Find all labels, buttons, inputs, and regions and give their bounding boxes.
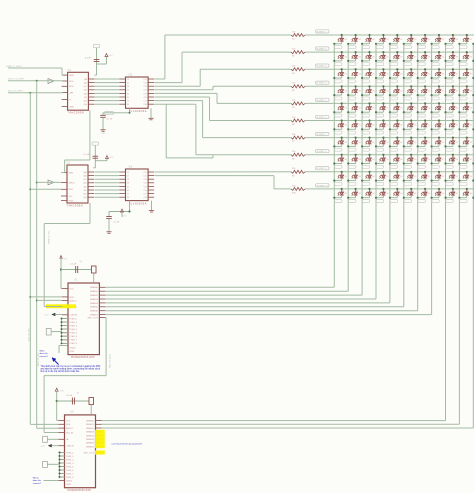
- svg-text:QC: QC: [84, 86, 88, 88]
- wire ULN1 output 5 to row 5: [155, 93, 292, 103]
- svg-text:DRAIN2: DRAIN2: [86, 427, 95, 430]
- svg-text:PGM_7: PGM_7: [70, 340, 78, 342]
- wire LED D1_10 cathode to column 10: [458, 41, 467, 45]
- svg-text:D7: D7: [355, 139, 357, 141]
- LED D6_3: [366, 119, 376, 127]
- svg-text:GND2: GND2: [70, 347, 77, 349]
- svg-text:D9: D9: [369, 173, 371, 175]
- svg-text:D3: D3: [466, 71, 468, 73]
- svg-text:D4: D4: [369, 88, 371, 90]
- wire column 5 vertical net: [389, 44, 391, 303]
- LED D9_6: [407, 171, 417, 179]
- crystal Q1 and capacitor at PIC: [60, 256, 96, 289]
- net label box cell r1 c1: [335, 46, 342, 49]
- svg-text:D9: D9: [439, 173, 441, 175]
- svg-text:D9: D9: [341, 173, 343, 175]
- LED D3_4: [380, 68, 390, 76]
- wire LED D7_9 cathode to column 9: [444, 144, 453, 148]
- net label box row 5: [316, 98, 330, 102]
- svg-text:74HC595N: 74HC595N: [68, 112, 85, 115]
- net label box cell r10 c7: [418, 200, 425, 203]
- svg-text:DRAIN0: DRAIN0: [86, 420, 95, 423]
- svg-text:QB: QB: [84, 83, 88, 85]
- wire ULN1 output 2 to row 2: [155, 52, 292, 83]
- wire LED D8_8 cathode to column 8: [431, 161, 440, 165]
- net label box cell r8 c6: [404, 165, 411, 168]
- wire column 11 to bottom IC drain pin 2: [102, 427, 474, 429]
- svg-text:D2: D2: [355, 54, 357, 56]
- svg-text:SRC_OUT: SRC_OUT: [84, 452, 95, 454]
- LED D7_1: [338, 137, 348, 145]
- LED D4_5: [393, 85, 403, 93]
- LED D10_5: [393, 188, 403, 196]
- wire LED D2_10 cathode to column 10: [458, 58, 467, 62]
- net label box row 2: [316, 47, 330, 51]
- svg-text:D8: D8: [397, 156, 399, 158]
- svg-text:D2: D2: [452, 54, 454, 56]
- net label box row 4: [316, 81, 330, 85]
- LED D10_4: [380, 188, 390, 196]
- svg-text:D3: D3: [425, 71, 427, 73]
- svg-text:D5: D5: [439, 105, 441, 107]
- net label box cell r7 c7: [418, 148, 425, 151]
- wire LED D10_5 cathode to column 5: [389, 195, 398, 199]
- svg-text:D7: D7: [369, 139, 371, 141]
- wire row 3 horizontal net: [305, 68, 474, 70]
- net label box cell r6 c5: [390, 131, 397, 134]
- LED D9_9: [449, 171, 459, 179]
- svg-text:D5: D5: [341, 105, 343, 107]
- LED D1_10: [463, 34, 473, 42]
- LED D9_3: [366, 171, 376, 179]
- net label box cell r9 c1: [335, 182, 342, 185]
- LED D10_7: [421, 188, 431, 196]
- net label box cell r10 c9: [446, 200, 453, 203]
- wire LED D9_9 cathode to column 9: [444, 178, 453, 182]
- svg-text:ULN2803A: ULN2803A: [131, 110, 148, 113]
- LED D7_7: [421, 137, 431, 145]
- svg-text:D8: D8: [411, 156, 413, 158]
- LED D9_2: [352, 171, 362, 179]
- wire row 6 horizontal net: [305, 120, 474, 122]
- svg-text:D4: D4: [383, 88, 385, 90]
- LED D2_8: [435, 51, 445, 59]
- LED D7_5: [393, 137, 403, 145]
- svg-text:PGM_1: PGM_1: [70, 318, 78, 320]
- net label box cell r8 c9: [446, 165, 453, 168]
- wire PIC SRC_OUT to bottom IC SDI_IN: [44, 318, 106, 433]
- net label box row 7: [316, 132, 330, 136]
- LED D10_3: [366, 188, 376, 196]
- LED D5_9: [449, 102, 459, 110]
- wire LED D2_2 cathode to column 2: [347, 58, 356, 62]
- wire LED D9_8 cathode to column 8: [431, 178, 440, 182]
- wire LED D3_7 cathode to column 7: [417, 75, 426, 79]
- svg-text:D4: D4: [439, 88, 441, 90]
- wire LED D1_6 cathode to column 6: [403, 41, 412, 45]
- svg-text:QA: QA: [83, 171, 87, 174]
- net label box cell r9 c7: [418, 182, 425, 185]
- svg-text:RCK: RCK: [69, 86, 74, 88]
- svg-text:DRAIN1: DRAIN1: [90, 290, 99, 293]
- svg-text:QE: QE: [83, 186, 87, 188]
- svg-text:ROWNET_6: ROWNET_6: [317, 117, 327, 119]
- svg-text:-MR: -MR: [69, 93, 74, 95]
- svg-text:QE: QE: [84, 93, 88, 95]
- svg-text:SCK: SCK: [69, 81, 74, 83]
- wire LED D10_9 cathode to column 9: [444, 195, 453, 199]
- svg-text:D6: D6: [383, 122, 385, 124]
- wire column 7 vertical net: [417, 44, 419, 311]
- svg-text:GND: GND: [66, 484, 71, 486]
- svg-text:ULN2803A: ULN2803A: [131, 202, 148, 205]
- net label box cell r6 c9: [446, 131, 453, 134]
- wire column 1 to PIC drain pin 0: [106, 286, 335, 288]
- svg-text:PGM_6: PGM_6: [66, 470, 74, 472]
- svg-text:QB: QB: [83, 176, 87, 178]
- annotation blue text can these be left unconnected: [112, 442, 143, 445]
- svg-text:DRAIN3: DRAIN3: [90, 298, 99, 301]
- svg-text:PIC16AXXXXXX-X/XX: PIC16AXXXXXX-X/XX: [71, 356, 95, 359]
- net label box cell r1 c2: [349, 46, 356, 49]
- svg-text:ROWNET_9: ROWNET_9: [317, 168, 327, 170]
- annotation blue paragraph: [41, 365, 102, 373]
- svg-text:0.1 uF: 0.1 uF: [84, 154, 90, 156]
- wire extra branch of row 8 net: [166, 104, 213, 158]
- wire LED D9_1 cathode to column 1: [333, 178, 342, 182]
- wire LED D7_5 cathode to column 5: [389, 144, 398, 148]
- net label box cell r10 c8: [432, 200, 439, 203]
- svg-text:QH: QH: [83, 197, 87, 199]
- net label box cell r2 c9: [446, 63, 453, 66]
- LED D2_10: [463, 51, 473, 59]
- svg-text:GND: GND: [69, 200, 74, 202]
- LED D5_5: [393, 102, 403, 110]
- LED D5_3: [366, 102, 376, 110]
- microcontroller U3 PIC middle: [62, 280, 105, 359]
- wire LED D3_11 cathode to column 11: [472, 75, 474, 79]
- svg-text:D9: D9: [355, 173, 357, 175]
- net label box cell r4 c5: [390, 97, 397, 100]
- resistor R2 220: [291, 49, 305, 58]
- wire RCK vertical bus x=30.3: [29, 93, 58, 425]
- node: LED matrix 10 rows x 11 columns: [0, 0, 1, 1]
- wire LED D7_1 cathode to column 1: [333, 144, 342, 148]
- svg-text:ROWNET_4: ROWNET_4: [317, 83, 327, 85]
- wire row 10 horizontal net: [305, 188, 474, 190]
- svg-text:D2: D2: [466, 54, 468, 56]
- svg-text:ROWNET_8: ROWNET_8: [317, 151, 327, 153]
- wire LED D4_5 cathode to column 5: [389, 93, 398, 97]
- wire IC1 output to ULN1 input: [94, 78, 119, 80]
- svg-text:D4: D4: [425, 88, 427, 90]
- svg-text:D8: D8: [466, 156, 468, 158]
- wire LED D4_2 cathode to column 2: [347, 93, 356, 97]
- net label box cell r1 c4: [376, 46, 383, 49]
- LED D10_2: [352, 188, 362, 196]
- wire chain IC1 QH' to IC2 SER: [61, 110, 90, 172]
- LED D4_2: [352, 85, 362, 93]
- svg-text:RCK: RCK: [69, 189, 74, 191]
- wire LED D7_3 cathode to column 3: [361, 144, 370, 148]
- LED D5_2: [352, 102, 362, 110]
- wire LED D7_4 cathode to column 4: [375, 144, 384, 148]
- svg-text:PGM_7: PGM_7: [66, 473, 74, 475]
- LED D6_4: [380, 119, 390, 127]
- crystal Q2 and capacitor at bottom IC: [55, 388, 93, 420]
- net label box cell r2 c8: [432, 63, 439, 66]
- VCC power arrow at bottom IC -LATCH pin: [41, 444, 59, 448]
- svg-text:D8: D8: [452, 156, 454, 158]
- wire LED D3_6 cathode to column 6: [403, 75, 412, 79]
- LED D3_2: [352, 68, 362, 76]
- LED D10_10: [463, 188, 473, 196]
- LED D5_1: [338, 102, 348, 110]
- net label box cell r5 c7: [418, 114, 425, 117]
- wire column 8 to PIC drain pin 7: [106, 314, 432, 316]
- wire register clock to IC1 (bus): [8, 91, 63, 94]
- net label box cell r10 c4: [376, 200, 383, 203]
- ground and capacitor C3 below ULN1: [100, 108, 153, 135]
- wire SRCK vertical bus x=36.7: [36, 81, 59, 429]
- svg-text:D5: D5: [411, 105, 413, 107]
- net label box cell r10 c1: [335, 200, 342, 203]
- wire LED D10_3 cathode to column 3: [361, 195, 370, 199]
- wire LED D10_7 cathode to column 7: [417, 195, 426, 199]
- wire LED D5_9 cathode to column 9: [444, 110, 453, 114]
- net label box cell r2 c3: [362, 63, 369, 66]
- svg-text:D10: D10: [466, 191, 469, 193]
- net label box cell r2 c2: [349, 63, 356, 66]
- wire PGM program bus at PIC: [61, 318, 68, 345]
- wire PIC GND pin dangling: [59, 346, 67, 354]
- LED D2_2: [352, 51, 362, 59]
- svg-text:D1: D1: [355, 37, 357, 39]
- svg-text:D10: D10: [341, 191, 344, 193]
- wire ULN1 output 8 to row 8: [155, 104, 292, 155]
- LED D1_1: [338, 34, 348, 42]
- wire column 2 vertical net: [347, 44, 349, 291]
- wire LED D4_8 cathode to column 8: [431, 93, 440, 97]
- LED D5_6: [407, 102, 417, 110]
- svg-text:D10: D10: [383, 191, 386, 193]
- net label box cell r3 c5: [390, 80, 397, 83]
- wire LED D5_5 cathode to column 5: [389, 110, 398, 114]
- svg-text:RLB: RLB: [66, 424, 71, 426]
- wire LED D2_6 cathode to column 6: [403, 58, 412, 62]
- svg-text:D8: D8: [355, 156, 357, 158]
- wire row 2 horizontal net: [305, 51, 474, 53]
- svg-text:D6: D6: [355, 122, 357, 124]
- wire row 7 horizontal net: [305, 137, 474, 139]
- net label box row 8: [316, 150, 330, 154]
- net label box cell r9 c8: [432, 182, 439, 185]
- resistor R5 220: [291, 100, 305, 109]
- svg-text:D2: D2: [341, 54, 343, 56]
- svg-text:OE: OE: [69, 196, 73, 198]
- wire LED D1_4 cathode to column 4: [375, 41, 384, 45]
- net label box cell r2 c7: [418, 63, 425, 66]
- net label box cell r8 c5: [390, 165, 397, 168]
- wire bus AUDIO to PIC: [37, 299, 62, 301]
- LED D3_10: [463, 68, 473, 76]
- wire LED D8_11 cathode to column 11: [472, 161, 474, 165]
- LED D3_8: [435, 68, 445, 76]
- LED D7_3: [366, 137, 376, 145]
- wire unknown at bottom IC GND pin: [43, 480, 58, 482]
- wire LED D1_2 cathode to column 2: [347, 41, 356, 45]
- net label box cell r3 c3: [362, 80, 369, 83]
- svg-text:VCC: VCC: [41, 446, 46, 448]
- wire column 9 vertical net: [445, 44, 447, 421]
- svg-text:D4: D4: [397, 88, 399, 90]
- yellow highlight bottom IC unconnected drains: [95, 430, 105, 455]
- svg-text:ROWNET_10: ROWNET_10: [317, 185, 328, 187]
- svg-text:VCC: VCC: [60, 391, 65, 393]
- net label box cell r1 c8: [432, 46, 439, 49]
- wire column 3 vertical net: [361, 44, 363, 295]
- net label box cell r7 c2: [349, 148, 356, 151]
- wire LED D5_7 cathode to column 7: [417, 110, 426, 114]
- net label box cell r3 c10: [460, 80, 467, 83]
- wire bus RLB to PIC: [30, 296, 62, 298]
- net label box cell r7 c6: [404, 148, 411, 151]
- wire column 3 to PIC drain pin 2: [106, 294, 363, 296]
- wire row 9 horizontal net: [305, 171, 474, 173]
- LED D8_10: [463, 154, 473, 162]
- net label box cell r6 c4: [376, 131, 383, 134]
- svg-text:D10: D10: [452, 191, 455, 193]
- wire IC1 output to ULN1 input: [94, 100, 119, 102]
- net label box cell r2 c6: [404, 63, 411, 66]
- LED D7_6: [407, 137, 417, 145]
- net label box cell r3 c1: [335, 80, 342, 83]
- wire LED D5_8 cathode to column 8: [431, 110, 440, 114]
- wire LED D6_7 cathode to column 7: [417, 127, 426, 131]
- svg-text:PGM_2: PGM_2: [70, 322, 78, 324]
- net label box cell r3 c8: [432, 80, 439, 83]
- LED D6_5: [393, 119, 403, 127]
- wire IC2 RCK from bus: [30, 188, 61, 190]
- wire LED D7_6 cathode to column 6: [403, 144, 412, 148]
- svg-text:D9: D9: [466, 173, 468, 175]
- LED D8_7: [421, 154, 431, 162]
- LED D4_9: [449, 85, 459, 93]
- svg-text:D6: D6: [439, 122, 441, 124]
- wire column 5 to PIC drain pin 4: [106, 302, 390, 304]
- net label box cell r6 c8: [432, 131, 439, 134]
- wire LED D10_11 cathode to column 11: [472, 195, 474, 199]
- wire LED D6_4 cathode to column 4: [375, 127, 384, 131]
- svg-text:DRAIN6: DRAIN6: [86, 442, 95, 445]
- wire shift clock to IC1 (bus to IC2, PIC, IC4): [8, 79, 63, 82]
- net label box cell r2 c10: [460, 63, 467, 66]
- LED D6_10: [463, 119, 473, 127]
- svg-text:D7: D7: [397, 139, 399, 141]
- svg-text:D10: D10: [425, 191, 428, 193]
- wire column 8 vertical net: [431, 44, 433, 315]
- wire IC2 output to ULN2 input: [94, 178, 119, 180]
- svg-text:QD: QD: [83, 183, 87, 185]
- svg-text:DATA_TO_PIC: DATA_TO_PIC: [48, 230, 51, 244]
- svg-text:D8: D8: [439, 156, 441, 158]
- net label box cell r7 c3: [362, 148, 369, 151]
- svg-text:0.1 uF: 0.1 uF: [114, 222, 120, 224]
- wire LED D2_3 cathode to column 3: [361, 58, 370, 62]
- svg-text:D10: D10: [411, 191, 414, 193]
- svg-text:QC: QC: [83, 179, 87, 181]
- svg-text:ROWNET_2: ROWNET_2: [317, 49, 327, 51]
- svg-text:D5: D5: [425, 105, 427, 107]
- wire LED D1_3 cathode to column 3: [361, 41, 370, 45]
- svg-text:G: G: [69, 99, 71, 101]
- wire LED D6_1 cathode to column 1: [333, 127, 342, 131]
- svg-text:SRCK_TO_SHIFT: SRCK_TO_SHIFT: [8, 79, 25, 81]
- net label box cell r9 c10: [460, 182, 467, 185]
- LED D1_2: [352, 34, 362, 42]
- LED D8_1: [338, 154, 348, 162]
- net label box cell r9 c5: [390, 182, 397, 185]
- svg-text:DRAIN0: DRAIN0: [90, 286, 99, 289]
- net label box cell r5 c9: [446, 114, 453, 117]
- svg-text:DRAIN2: DRAIN2: [90, 294, 99, 297]
- svg-text:D1: D1: [397, 37, 399, 39]
- wire column 10 to bottom IC drain pin 1: [102, 423, 460, 425]
- LED D1_7: [421, 34, 431, 42]
- wire ULN2 output 1 to row 9: [155, 171, 292, 173]
- LED D1_5: [393, 34, 403, 42]
- svg-text:GND: GND: [70, 351, 75, 353]
- net label box cell r6 c1: [335, 131, 342, 134]
- svg-text:D7: D7: [383, 139, 385, 141]
- LED D8_9: [449, 154, 459, 162]
- net label box cell r4 c6: [404, 97, 411, 100]
- net label box cell r4 c3: [362, 97, 369, 100]
- wire LED D8_6 cathode to column 6: [403, 161, 412, 165]
- svg-text:D6: D6: [425, 122, 427, 124]
- svg-text:PGM_5: PGM_5: [70, 333, 78, 335]
- svg-text:DRAIN4: DRAIN4: [86, 434, 95, 437]
- wire ULN1 output 6 to row 6: [155, 97, 292, 121]
- svg-text:D6: D6: [397, 122, 399, 124]
- wire LED D1_11 cathode to column 11: [472, 41, 474, 45]
- svg-text:D6: D6: [341, 122, 343, 124]
- svg-text:PGM_8: PGM_8: [70, 343, 78, 345]
- svg-text:D5: D5: [452, 105, 454, 107]
- LED D9_4: [380, 171, 390, 179]
- svg-text:VCC: VCC: [70, 288, 75, 290]
- wire column 7 to PIC drain pin 6: [106, 310, 418, 312]
- svg-text:DRAIN1: DRAIN1: [86, 423, 95, 426]
- svg-text:PGM_1: PGM_1: [66, 452, 74, 454]
- wire LED D3_1 cathode to column 1: [333, 75, 342, 79]
- wire row 4 horizontal net: [305, 85, 474, 87]
- resistor R10 220: [291, 185, 305, 194]
- wire serial data to IC1 with net label: [6, 65, 63, 75]
- net label box cell r6 c3: [362, 131, 369, 134]
- svg-text:D9: D9: [383, 173, 385, 175]
- svg-text:D4: D4: [466, 88, 468, 90]
- net label box row 6: [316, 115, 330, 119]
- svg-text:PGM_2: PGM_2: [66, 456, 74, 458]
- wire column 4 vertical net: [375, 44, 377, 299]
- svg-text:D4: D4: [452, 88, 454, 90]
- svg-text:D1: D1: [425, 37, 427, 39]
- svg-text:PIC16AXXXXXX-X/XX: PIC16AXXXXXX-X/XX: [68, 489, 92, 492]
- svg-text:ROWNET_5: ROWNET_5: [317, 100, 327, 102]
- wire LED D7_8 cathode to column 8: [431, 144, 440, 148]
- net label box cell r7 c1: [335, 148, 342, 151]
